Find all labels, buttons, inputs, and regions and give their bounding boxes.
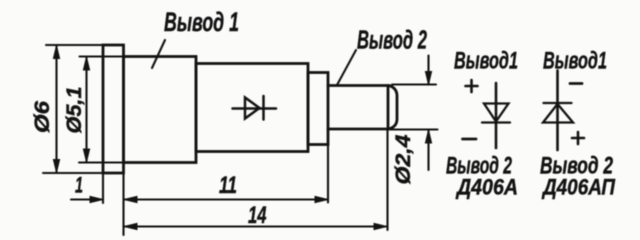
body section 1 (Ø5.1)	[124, 57, 197, 163]
step end extension down	[327, 145, 329, 203]
dim Ø6 extension top	[46, 44, 103, 46]
svg-text:Вывод1: Вывод1	[543, 48, 607, 75]
dim Ø6 extension bottom	[43, 172, 103, 174]
svg-text:Ø6: Ø6	[31, 101, 54, 133]
flange right edge extension down	[122, 173, 124, 235]
svg-text:Ø5,1: Ø5,1	[63, 87, 86, 134]
flange left edge extension down	[102, 173, 104, 203]
dim 14 line with arrows	[125, 225, 386, 227]
diode symbol Д406АП (cathode up)	[543, 103, 573, 123]
dim 1 line with arrow	[71, 198, 102, 200]
lead pin outline	[328, 86, 397, 130]
svg-text:11: 11	[219, 172, 237, 199]
lead end extension down (14)	[386, 130, 388, 231]
svg-text:Д406А: Д406А	[455, 175, 518, 200]
dim Ø5.1 extension bottom	[79, 161, 124, 163]
dim Ø2.4 extension bottom	[390, 128, 438, 130]
flange (Ø6 disc)	[103, 45, 124, 173]
svg-text:Д406АП: Д406АП	[541, 175, 616, 200]
step section	[308, 73, 328, 145]
leader line Вывод 2	[337, 50, 356, 85]
wire Д406АП	[556, 71, 559, 151]
diode mark triangle	[245, 98, 260, 119]
plus sign (Д406АП bottom)	[572, 132, 584, 144]
dim Ø5.1 line with arrows	[85, 58, 87, 162]
plus sign (anode Д406А)	[466, 80, 478, 92]
body section 2 (case with diode marking)	[196, 64, 308, 152]
wire Д406А	[495, 83, 498, 148]
svg-text:1: 1	[75, 173, 83, 198]
diode polarity mark inside case	[233, 96, 277, 120]
lead chamfer line	[387, 86, 390, 130]
svg-text:Вывод1: Вывод1	[454, 48, 518, 75]
dim Ø2.4 extension top	[392, 83, 436, 85]
minus sign (Д406АП top)	[570, 82, 582, 85]
diode symbol Д406А (cathode down)	[482, 104, 510, 123]
svg-text:Вывод 2: Вывод 2	[357, 25, 427, 55]
diode mark cathode bar	[262, 96, 265, 120]
dim Ø5.1 extension top	[80, 55, 124, 57]
svg-text:Ø2,4: Ø2,4	[392, 134, 415, 184]
leader line Вывод 1	[152, 40, 165, 68]
dim Ø6 line with arrows	[55, 46, 57, 172]
dim Ø2.4 lower arrow	[427, 131, 429, 171]
dim 11 line with arrows	[125, 198, 327, 200]
minus sign (cathode Д406А)	[463, 138, 477, 141]
diode mark horizontal line	[233, 107, 277, 110]
dim Ø2.4 upper arrow	[427, 56, 429, 85]
svg-text:Вывод 1: Вывод 1	[164, 7, 239, 37]
svg-text:14: 14	[248, 202, 267, 229]
